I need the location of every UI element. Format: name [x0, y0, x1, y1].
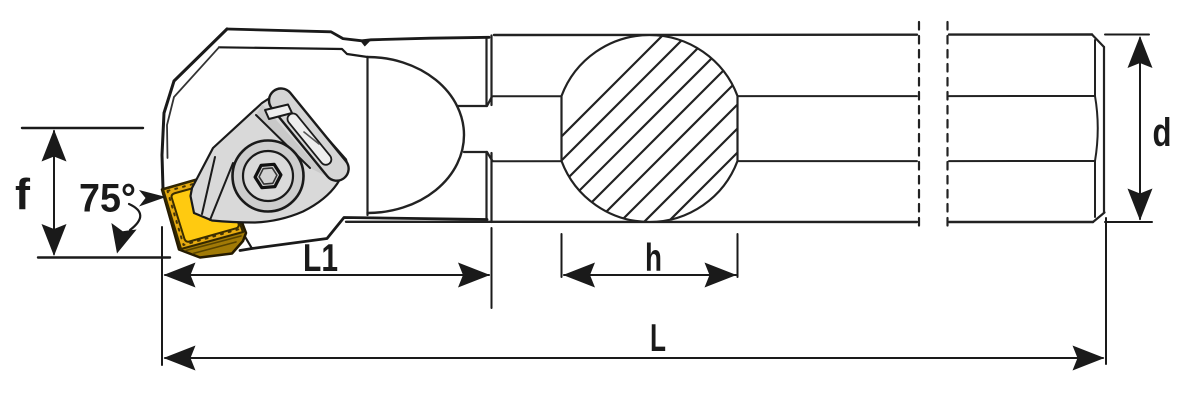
node: neck vertical outer — [485, 37, 487, 219]
wire: bar right cone silhouette with bulge — [1095, 40, 1098, 217]
node: break line right — [946, 22, 948, 232]
shared left extension for L1 and L — [161, 227, 163, 365]
dimension f line — [53, 131, 55, 254]
angle leader arrow — [139, 190, 166, 207]
clamp washer inner — [243, 151, 293, 201]
dimension f top extension — [22, 127, 143, 129]
clamp washer outer — [233, 141, 304, 212]
dimension d line — [1139, 38, 1141, 219]
wire: hatching — [468, 20, 942, 230]
insert top face band — [163, 173, 243, 250]
dimension f bottom extension / angle reference — [38, 256, 170, 258]
svg-text:d: d — [1153, 111, 1172, 155]
insert silhouette with thickness — [162, 172, 246, 258]
insert serration ticks — [168, 177, 240, 246]
dimension d extensions — [1105, 35, 1152, 223]
lever stadium slot outer — [264, 84, 353, 186]
clamp hump line — [304, 132, 319, 144]
clamp nose facet 2 — [210, 163, 233, 220]
wire: head top edge — [227, 29, 489, 41]
wire: head pocket and bottom edge — [240, 218, 487, 251]
dimension L1 arrows — [164, 263, 491, 288]
wire: bar right end chamfer bottom — [1093, 213, 1105, 223]
dimension L extension right — [1105, 218, 1107, 364]
dimension d arrows — [1128, 36, 1153, 221]
wire: insert seat corner — [244, 235, 252, 249]
clamp body — [191, 94, 347, 223]
wire: head top inner chamfer line — [219, 47, 368, 57]
insert bright face — [172, 181, 239, 242]
svg-text:75°: 75° — [79, 177, 136, 221]
dimension L arrows — [164, 346, 1105, 371]
dimension f arrows — [42, 130, 67, 257]
wire: bar upper flat line — [493, 95, 1095, 97]
angle arc arrow — [129, 204, 140, 230]
dimension h arrows — [563, 263, 737, 288]
wire: bar bottom edge — [346, 221, 1093, 224]
wire: neck shoulder top — [457, 97, 492, 107]
node: break line left — [918, 22, 920, 232]
wire: bar top edge — [494, 33, 1092, 36]
svg-text:h: h — [645, 237, 662, 280]
wire: bar right end chamfer top — [1092, 35, 1104, 48]
insert thickness stripes — [167, 202, 241, 254]
svg-text:L1: L1 — [303, 237, 338, 280]
clamp facet line 2 — [256, 115, 310, 168]
clamp nose facet 1 — [202, 157, 215, 214]
svg-text:L: L — [650, 317, 666, 360]
wire: bar right end face — [1103, 47, 1105, 213]
screw hex inner — [259, 168, 277, 184]
screw hex socket — [255, 164, 281, 187]
svg-text:f: f — [15, 170, 30, 219]
wire: head left inner chamfer line — [167, 47, 219, 158]
lever pin end face — [265, 105, 292, 120]
dimension L1 line — [165, 274, 489, 276]
dimension L line — [165, 357, 1103, 359]
dimension L1 extension right — [491, 228, 493, 308]
dimension h extensions — [562, 234, 738, 277]
wire: bar lower flat line — [493, 160, 1095, 162]
node: neck vertical inner — [490, 36, 492, 223]
clamp top chamfer band — [256, 104, 326, 176]
node: hatched section circle — [562, 35, 738, 222]
node: head back lobe arc — [368, 57, 465, 213]
node: top edge notch — [361, 40, 371, 46]
wire: neck shoulder bottom — [464, 152, 492, 161]
lever stadium slot inner — [285, 111, 333, 167]
dimension h line — [564, 274, 736, 276]
wire: head left edge — [162, 29, 227, 189]
node: head back lobe chord — [366, 57, 368, 215]
